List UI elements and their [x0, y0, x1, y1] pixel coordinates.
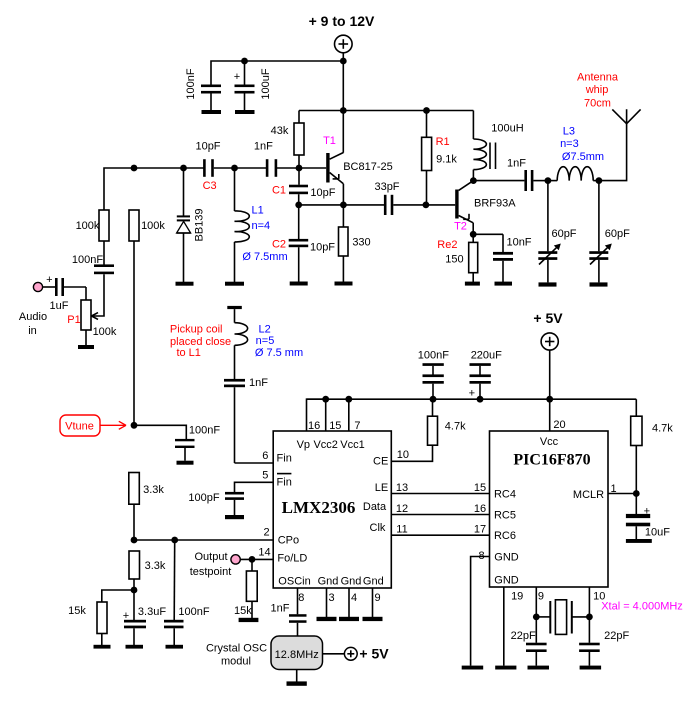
svg-text:15k: 15k: [234, 605, 252, 617]
resistor 3.3k (upper): [129, 473, 165, 541]
svg-text:Vtune: Vtune: [65, 421, 94, 433]
supply terminal +5V (main): [541, 333, 558, 399]
node rail B / supply drop: [340, 107, 347, 114]
svg-text:70cm: 70cm: [584, 98, 611, 110]
op IC U2 PIC16F870 body: [490, 431, 609, 587]
capacitor 100nF (audio coupling): [72, 254, 114, 274]
transistor T1 BC817-25: [323, 135, 393, 205]
svg-text:16: 16: [308, 420, 320, 432]
pin 9 OSC stub: [535, 587, 537, 617]
svg-text:17: 17: [474, 524, 486, 536]
capacitor 10nF (emitter bypass): [473, 234, 532, 285]
supply terminal +5V (module): [344, 646, 389, 662]
trimmer capacitor 60pF (right): [589, 181, 630, 287]
node loop filter / 15k / 3.3uF: [131, 587, 138, 594]
node T2 emitter / Re2: [470, 231, 477, 238]
svg-text:13: 13: [396, 482, 408, 494]
resistor 330: [335, 205, 371, 286]
svg-text:Audio: Audio: [19, 311, 47, 323]
wire supply to rail A: [342, 53, 344, 61]
capacitor 1uF (audio input): [43, 278, 86, 312]
wire module to +5V: [323, 653, 345, 655]
resistor 100k (loop filter top, x=134): [129, 210, 165, 425]
capacitor 1nF (Fin coupling): [224, 377, 268, 463]
svg-text:12.8MHz: 12.8MHz: [275, 649, 319, 661]
svg-text:100nF: 100nF: [189, 425, 220, 437]
svg-text:3.3uF: 3.3uF: [138, 606, 166, 618]
crystal X1 4MHz: [536, 600, 683, 635]
svg-text:C3: C3: [203, 180, 217, 192]
svg-text:60pF: 60pF: [605, 228, 630, 240]
varicap diode BB139: [176, 168, 206, 286]
svg-text:Pickup coil: Pickup coil: [170, 323, 223, 335]
node rail / pin15: [322, 396, 329, 403]
svg-text:1nF: 1nF: [507, 158, 526, 170]
wire +5V rail: [307, 398, 637, 400]
svg-text:5: 5: [262, 470, 268, 482]
svg-text:9: 9: [374, 592, 380, 604]
svg-text:RC6: RC6: [494, 530, 516, 542]
svg-text:100k: 100k: [76, 220, 100, 232]
svg-text:n=4: n=4: [251, 220, 270, 232]
node rail A / 100uF: [241, 58, 248, 65]
svg-text:10uF: 10uF: [645, 527, 670, 539]
svg-text:1nF: 1nF: [271, 603, 290, 615]
wire signal line 1nF to T1 base: [276, 167, 326, 169]
svg-text:100nF: 100nF: [185, 68, 197, 99]
svg-text:T1: T1: [323, 135, 336, 147]
svg-text:1nF: 1nF: [249, 377, 268, 389]
svg-text:BB139: BB139: [194, 208, 206, 241]
capacitor 100nF (loop filter): [164, 540, 210, 649]
svg-text:Re2: Re2: [437, 239, 457, 251]
wire Fo/LD pin14: [240, 558, 273, 560]
svg-text:RC4: RC4: [494, 489, 516, 501]
svg-text:60pF: 60pF: [551, 228, 576, 240]
resistor 100k (audio feed): [76, 210, 109, 265]
wire Fin pin 6: [235, 462, 274, 464]
svg-text:+: +: [234, 71, 240, 83]
svg-text:Xtal = 4.000MHz: Xtal = 4.000MHz: [601, 601, 683, 613]
svg-text:100nF: 100nF: [178, 606, 209, 618]
svg-text:GND: GND: [494, 574, 519, 586]
pin 20 Vcc stub: [549, 399, 551, 431]
resistor R1 9.1k: [422, 111, 458, 205]
node MCLR / 4.7k / 10uF: [633, 490, 640, 497]
capacitor 10uF (electrolytic, MCLR): [626, 494, 670, 543]
svg-text:100k: 100k: [93, 326, 117, 338]
svg-text:12: 12: [396, 503, 408, 515]
node 33pF/R1: [423, 202, 430, 209]
svg-text:Vp: Vp: [297, 439, 310, 451]
svg-text:n=5: n=5: [256, 335, 275, 347]
svg-text:L3: L3: [563, 126, 575, 138]
svg-text:15k: 15k: [68, 605, 86, 617]
capacitor 100nF (5V decoupling): [418, 349, 449, 399]
potentiometer P1 100k: [67, 287, 117, 349]
svg-text:8: 8: [298, 592, 304, 604]
svg-text:Vcc1: Vcc1: [340, 439, 364, 451]
svg-text:LMX2306: LMX2306: [282, 498, 356, 517]
svg-text:19: 19: [511, 590, 523, 602]
svg-text:33pF: 33pF: [374, 181, 399, 193]
wire L3 node to antenna: [599, 109, 627, 180]
svg-text:1uF: 1uF: [50, 300, 69, 312]
svg-text:Ø7.5mm: Ø7.5mm: [562, 151, 604, 163]
pin 4 Gnd stub + ground: [339, 588, 359, 621]
node loop filter / CPo: [131, 537, 138, 544]
pickup coil L2 n=5: [170, 306, 303, 379]
svg-text:+ 5V: + 5V: [533, 310, 563, 326]
pin 8 OSCin stub: [297, 588, 299, 614]
wire 33pF to T2 base: [393, 204, 455, 206]
svg-text:+: +: [469, 388, 475, 400]
node crystal right: [586, 614, 593, 621]
svg-text:10pF: 10pF: [195, 141, 220, 153]
svg-text:Gnd: Gnd: [318, 576, 339, 588]
wire MCLR pin 1: [608, 493, 636, 495]
node L3 / antenna / 60pF: [596, 177, 603, 184]
node CPo / 100nF: [171, 537, 178, 544]
svg-text:100nF: 100nF: [72, 254, 103, 266]
svg-text:16: 16: [474, 503, 486, 515]
svg-text:220uF: 220uF: [471, 349, 502, 361]
svg-text:9: 9: [538, 590, 544, 602]
svg-text:3.3k: 3.3k: [143, 484, 164, 496]
svg-text:T2: T2: [454, 220, 467, 232]
node signal/100k loop filter: [131, 165, 138, 172]
svg-text:+ 5V: + 5V: [359, 646, 389, 662]
svg-text:L1: L1: [251, 205, 263, 217]
svg-text:9.1k: 9.1k: [436, 154, 457, 166]
output testpoint terminal: [190, 551, 241, 578]
svg-text:43k: 43k: [271, 125, 289, 137]
svg-text:LE: LE: [375, 482, 388, 494]
svg-text:22pF: 22pF: [604, 630, 629, 642]
trimmer capacitor 60pF (left): [538, 181, 577, 287]
capacitor 22pF (right): [579, 617, 629, 670]
capacitor 1nF (output coupling): [507, 158, 548, 192]
svg-text:Clk: Clk: [370, 522, 386, 534]
svg-text:C1: C1: [272, 185, 286, 197]
svg-text:+: +: [46, 274, 52, 286]
wiper arrowhead: [92, 313, 99, 316]
svg-text:R1: R1: [436, 136, 450, 148]
svg-text:RC5: RC5: [494, 510, 516, 522]
svg-text:C2: C2: [272, 239, 286, 251]
wire LE row pin13-15: [391, 493, 489, 495]
svg-text:+ 9 to 12V: + 9 to 12V: [309, 13, 375, 29]
svg-text:MCLR: MCLR: [573, 489, 604, 501]
svg-text:10: 10: [397, 449, 409, 461]
capacitor 100pF: [188, 492, 244, 519]
svg-text:Ø 7.5 mm: Ø 7.5 mm: [255, 347, 303, 359]
svg-text:CE: CE: [373, 456, 388, 468]
svg-text:100k: 100k: [141, 220, 165, 232]
svg-text:n=3: n=3: [560, 138, 579, 150]
resistor 15k (loop filter): [68, 590, 134, 649]
svg-text:2: 2: [263, 527, 269, 539]
svg-text:1nF: 1nF: [254, 141, 273, 153]
capacitor 22pF (left): [511, 617, 549, 670]
svg-text:100pF: 100pF: [188, 492, 219, 504]
node C1/C2: [295, 202, 302, 209]
svg-text:100uH: 100uH: [491, 123, 523, 135]
capacitor C1 10pF: [272, 168, 336, 205]
pin 19 GND stub + ground: [495, 587, 523, 670]
inductor 100uH (choke with core): [473, 111, 523, 181]
svg-text:whip: whip: [585, 84, 609, 96]
svg-text:4.7k: 4.7k: [652, 423, 673, 435]
svg-text:3.3k: 3.3k: [145, 560, 166, 572]
capacitor C3 10pF (series): [195, 141, 220, 193]
supply terminal +9-12V: [335, 35, 353, 53]
svg-text:Ø 7.5mm: Ø 7.5mm: [242, 251, 287, 263]
svg-text:11: 11: [396, 524, 407, 536]
node rail / +5V supply: [546, 396, 553, 403]
svg-text:3: 3: [328, 592, 334, 604]
svg-text:15: 15: [329, 420, 341, 432]
svg-text:CPo: CPo: [278, 534, 299, 546]
node rail A / supply drop: [340, 58, 347, 65]
pin 10 OSC stub: [588, 587, 590, 617]
svg-text:Gnd: Gnd: [363, 576, 384, 588]
wire 100nF to pot wiper: [93, 274, 104, 316]
svg-text:Vcc2: Vcc2: [313, 439, 337, 451]
wire Clk row pin11-17: [391, 534, 489, 536]
pin 16 Vp stub: [307, 399, 326, 431]
node 1nF / L3 / 60pF: [545, 177, 552, 184]
wire Fin-bar pin 5 + 100pF: [235, 482, 274, 492]
capacitor 220uF (electrolytic): [469, 349, 502, 399]
node rail / pin7: [345, 396, 352, 403]
capacitor 100nF (Vtune filter): [134, 425, 220, 465]
resistor 43k: [271, 111, 304, 169]
node Fo/LD / 15k: [249, 556, 256, 563]
svg-text:Fin: Fin: [277, 453, 292, 465]
op IC U1 LMX2306 body: [273, 431, 391, 588]
svg-text:330: 330: [352, 237, 370, 249]
inductor L1 n=4: [225, 168, 288, 286]
svg-text:15: 15: [474, 482, 486, 494]
wire rail B (collector rail): [299, 110, 473, 112]
Vtune label box: [60, 415, 126, 436]
node signal/L1: [231, 165, 238, 172]
node signal/43k/C1: [296, 165, 303, 172]
audio input terminal: [19, 274, 53, 337]
svg-text:L2: L2: [258, 323, 270, 335]
wire signal line C3 to 1nF: [214, 167, 267, 169]
pin 3 Gnd stub + ground: [317, 588, 337, 621]
pin 9 Gnd stub + ground: [363, 588, 383, 621]
svg-text:Antenna: Antenna: [577, 71, 619, 83]
svg-text:Fo/LD: Fo/LD: [277, 552, 307, 564]
resistor 3.3k (lower): [129, 551, 166, 590]
node signal/BB139: [180, 165, 187, 172]
node rail / 100nF: [430, 396, 437, 403]
svg-text:4.7k: 4.7k: [445, 421, 466, 433]
wire rail A (top decoupling rail): [211, 61, 343, 85]
capacitor 3.3uF (electrolytic): [123, 590, 167, 649]
svg-text:7: 7: [354, 420, 360, 432]
capacitor 100uF (top decoupling, electrolytic): [234, 61, 272, 114]
svg-text:Output: Output: [194, 551, 227, 563]
svg-text:Crystal OSC: Crystal OSC: [206, 643, 267, 655]
capacitor 33pF (series): [374, 181, 399, 215]
wire collector node to 1nF: [473, 180, 524, 182]
svg-text:in: in: [28, 325, 37, 337]
wire pin 8 GND to ground: [462, 557, 490, 670]
svg-text:10pF: 10pF: [310, 242, 335, 254]
svg-text:modul: modul: [221, 656, 251, 668]
svg-text:14: 14: [258, 547, 270, 559]
antenna whip symbol: [577, 71, 641, 123]
resistor 15k (Fo/LD): [234, 559, 258, 622]
svg-text:100uF: 100uF: [260, 68, 272, 99]
svg-text:22pF: 22pF: [511, 630, 536, 642]
resistor Re2 150: [437, 234, 480, 285]
wire Data row pin12-16: [391, 514, 489, 516]
capacitor 1nF (OSCin): [271, 603, 307, 637]
wire CE pin10 to 4.7k: [391, 445, 432, 461]
inductor L3 n=3: [548, 126, 604, 181]
wire varicap signal line: [104, 168, 204, 210]
node Vtune: [131, 422, 138, 429]
pin 15 Vcc2 stub: [325, 399, 327, 431]
node rail / 220uF: [477, 396, 484, 403]
svg-text:Fin: Fin: [277, 477, 292, 489]
svg-text:10pF: 10pF: [310, 187, 335, 199]
wire CPo row: [134, 539, 273, 541]
node rail B / R1: [423, 107, 430, 114]
svg-text:10nF: 10nF: [506, 237, 531, 249]
resistor 4.7k (CE pullup): [428, 399, 467, 445]
svg-text:OSCin: OSCin: [278, 576, 310, 588]
svg-text:to L1: to L1: [176, 347, 200, 359]
svg-text:BC817-25: BC817-25: [343, 161, 393, 173]
svg-text:Vcc: Vcc: [540, 436, 559, 448]
wire supply drop to rail B: [342, 61, 344, 153]
capacitor 100nF (top decoupling): [185, 68, 221, 114]
node T2 collector / 100uH: [470, 177, 477, 184]
svg-text:GND: GND: [494, 552, 519, 564]
capacitor C2 10pF: [272, 205, 335, 286]
svg-text:150: 150: [445, 253, 463, 265]
resistor 4.7k (MCLR pullup): [631, 399, 674, 493]
ground module: [287, 670, 307, 686]
svg-text:20: 20: [553, 419, 565, 431]
capacitor 1nF (series, T1 base): [254, 141, 277, 177]
svg-text:4: 4: [351, 592, 357, 604]
node crystal left: [533, 614, 540, 621]
node emitter/330: [340, 202, 347, 209]
svg-text:P1: P1: [67, 314, 80, 326]
svg-text:Data: Data: [363, 501, 387, 513]
svg-text:testpoint: testpoint: [190, 566, 232, 578]
svg-text:Gnd: Gnd: [341, 576, 362, 588]
supply label +9 to 12V: [309, 13, 375, 29]
crystal oscillator module 12.8MHz: [206, 636, 323, 670]
svg-text:PIC16F870: PIC16F870: [513, 451, 590, 468]
transistor T2 BRF93A: [454, 181, 516, 235]
svg-text:6: 6: [262, 450, 268, 462]
wire emitter row y=205: [299, 204, 385, 206]
svg-text:100nF: 100nF: [418, 349, 449, 361]
pin 7 Vcc1 stub: [348, 399, 350, 431]
svg-text:BRF93A: BRF93A: [474, 197, 516, 209]
